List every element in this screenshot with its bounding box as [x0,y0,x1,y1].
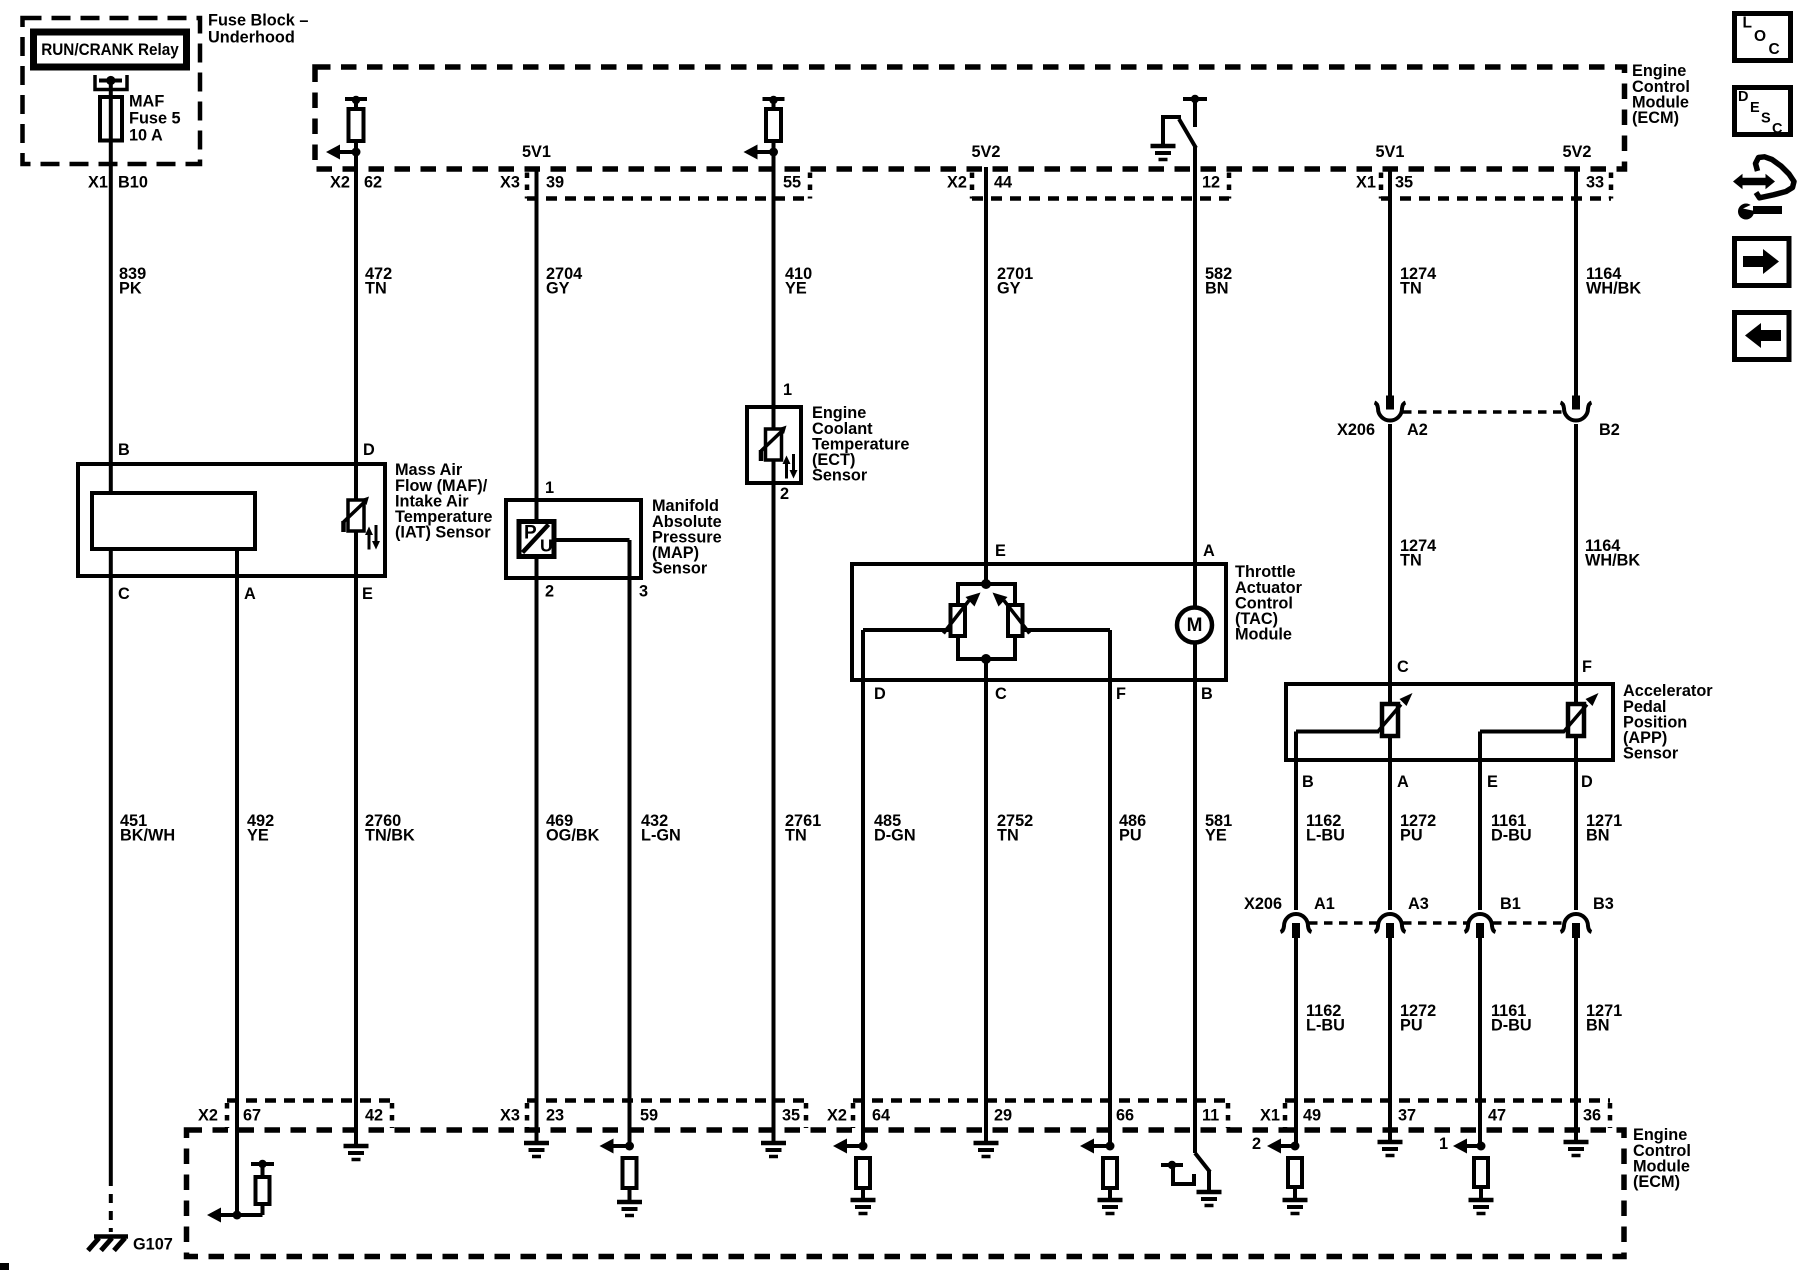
svg-text:(ECM): (ECM) [1633,1173,1680,1191]
svg-text:12: 12 [1202,174,1220,192]
svg-text:C: C [995,685,1007,703]
svg-text:OG/BK: OG/BK [546,827,600,845]
svg-text:2: 2 [1252,1135,1261,1153]
svg-text:C: C [1772,121,1783,137]
svg-text:C: C [118,585,130,603]
svg-text:B: B [1201,685,1213,703]
svg-text:TN/BK: TN/BK [365,827,415,845]
svg-text:YE: YE [1205,827,1227,845]
svg-text:X1: X1 [88,174,108,192]
svg-text:D-BU: D-BU [1491,827,1532,845]
svg-text:B10: B10 [118,174,148,192]
svg-text:TN: TN [785,827,807,845]
svg-text:5V1: 5V1 [522,143,551,161]
svg-text:1: 1 [1439,1135,1448,1153]
svg-text:BN: BN [1586,827,1610,845]
svg-text:TN: TN [1400,280,1422,298]
svg-text:E: E [362,585,373,603]
svg-text:1: 1 [783,381,792,399]
svg-text:GY: GY [546,280,570,298]
svg-text:Sensor: Sensor [1623,745,1679,763]
svg-text:X206: X206 [1244,895,1282,913]
svg-text:G107: G107 [133,1236,173,1254]
svg-text:BN: BN [1205,280,1229,298]
svg-text:B: B [118,441,130,459]
svg-text:L: L [1743,15,1752,32]
svg-text:55: 55 [783,174,801,192]
svg-text:B1: B1 [1500,895,1521,913]
svg-text:5V1: 5V1 [1376,143,1405,161]
svg-text:B: B [1302,773,1314,791]
svg-text:29: 29 [994,1107,1012,1125]
svg-text:64: 64 [872,1107,890,1125]
svg-text:Sensor: Sensor [812,467,868,485]
svg-text:35: 35 [1395,174,1413,192]
svg-text:RUN/CRANK Relay: RUN/CRANK Relay [41,41,179,59]
svg-text:Module: Module [1235,626,1292,644]
svg-text:WH/BK: WH/BK [1586,280,1641,298]
svg-text:O: O [1754,28,1766,45]
svg-text:TN: TN [997,827,1019,845]
svg-text:23: 23 [546,1107,564,1125]
svg-text:2: 2 [545,583,554,601]
svg-text:Fuse Block –: Fuse Block – [208,12,308,30]
svg-text:D: D [1581,773,1593,791]
svg-text:PU: PU [1400,1017,1423,1035]
svg-text:X3: X3 [500,1107,520,1125]
svg-text:42: 42 [365,1107,383,1125]
svg-text:D-GN: D-GN [874,827,916,845]
svg-text:WH/BK: WH/BK [1585,552,1640,570]
svg-text:5V2: 5V2 [972,143,1001,161]
svg-text:62: 62 [364,174,382,192]
svg-text:E: E [1487,773,1498,791]
svg-text:66: 66 [1116,1107,1134,1125]
svg-text:BK/WH: BK/WH [120,827,175,845]
svg-text:44: 44 [994,174,1012,192]
svg-text:D-BU: D-BU [1491,1017,1532,1035]
svg-text:10 A: 10 A [129,126,163,144]
svg-text:2: 2 [780,485,789,503]
svg-text:X2: X2 [827,1107,847,1125]
svg-text:X2: X2 [330,174,350,192]
svg-text:11: 11 [1202,1107,1219,1125]
svg-text:33: 33 [1586,174,1604,192]
svg-text:P: P [524,523,537,544]
svg-text:BN: BN [1586,1017,1610,1035]
svg-text:D: D [363,441,375,459]
svg-text:A: A [244,585,256,603]
svg-text:47: 47 [1488,1107,1506,1125]
svg-text:A3: A3 [1408,895,1429,913]
svg-text:59: 59 [640,1107,658,1125]
svg-text:1: 1 [545,479,554,497]
svg-text:X206: X206 [1337,421,1375,439]
svg-text:67: 67 [243,1107,261,1125]
svg-text:C: C [1769,41,1780,58]
svg-text:36: 36 [1583,1107,1601,1125]
svg-text:L-GN: L-GN [641,827,681,845]
svg-text:MAF: MAF [129,93,164,111]
svg-text:X1: X1 [1356,174,1376,192]
svg-text:X1: X1 [1260,1107,1280,1125]
svg-text:A: A [1203,542,1215,560]
svg-text:PU: PU [1400,827,1423,845]
svg-text:A2: A2 [1407,421,1428,439]
svg-text:A1: A1 [1314,895,1335,913]
svg-text:C: C [1397,658,1409,676]
svg-text:F: F [1116,685,1126,703]
svg-text:3: 3 [639,583,648,601]
svg-text:YE: YE [785,280,807,298]
svg-text:M: M [1187,615,1203,636]
svg-text:D: D [874,685,886,703]
svg-text:A: A [1397,773,1409,791]
svg-text:E: E [1750,100,1760,116]
svg-text:Underhood: Underhood [208,29,295,47]
svg-text:TN: TN [365,280,387,298]
svg-text:Fuse 5: Fuse 5 [129,110,181,128]
svg-text:L-BU: L-BU [1306,1017,1345,1035]
svg-text:YE: YE [247,827,269,845]
svg-text:S: S [1761,111,1771,127]
svg-text:GY: GY [997,280,1021,298]
svg-text:Sensor: Sensor [652,560,708,578]
svg-text:D: D [1738,89,1748,105]
svg-text:(IAT) Sensor: (IAT) Sensor [395,524,491,542]
svg-text:U: U [540,536,553,556]
svg-text:PK: PK [119,280,142,298]
svg-text:49: 49 [1303,1107,1321,1125]
svg-text:(ECM): (ECM) [1632,109,1679,127]
svg-text:5V2: 5V2 [1563,143,1592,161]
svg-text:B3: B3 [1593,895,1614,913]
svg-text:L-BU: L-BU [1306,827,1345,845]
svg-text:PU: PU [1119,827,1142,845]
svg-text:TN: TN [1400,552,1422,570]
svg-text:X2: X2 [198,1107,218,1125]
svg-text:F: F [1582,658,1592,676]
svg-text:37: 37 [1398,1107,1416,1125]
svg-text:E: E [995,542,1006,560]
svg-text:39: 39 [546,174,564,192]
svg-text:X3: X3 [500,174,520,192]
svg-text:X2: X2 [947,174,967,192]
svg-text:35: 35 [782,1107,800,1125]
svg-text:B2: B2 [1599,421,1620,439]
